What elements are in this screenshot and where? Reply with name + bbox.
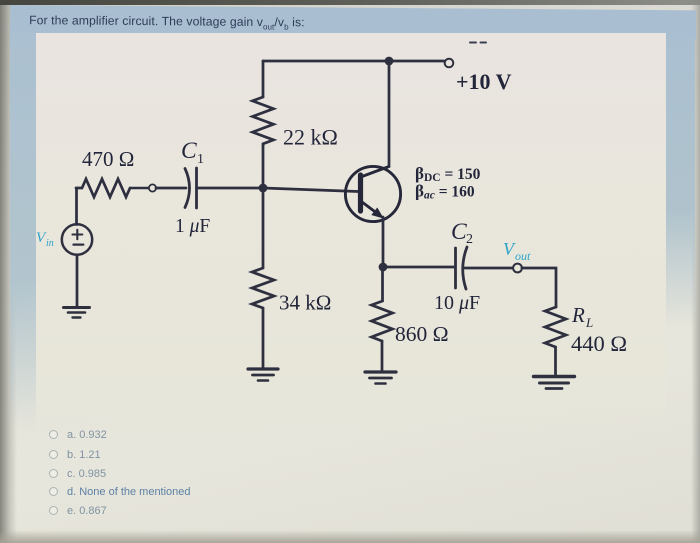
label 22 kΩ [283, 125, 338, 150]
label 440 Ω [571, 331, 627, 356]
svg-text:C: C [451, 219, 467, 245]
ground under RL [534, 377, 575, 389]
svg-text:L: L [585, 315, 593, 330]
ground under 860 [365, 372, 396, 384]
wire Vout to RL corner [522, 268, 556, 307]
wire input corner down [75, 188, 78, 225]
label 470 Ω [82, 147, 134, 171]
wire left column middle [262, 146, 265, 268]
label C1 [181, 138, 204, 167]
resistor 34 kΩ [252, 268, 274, 308]
label RL [571, 303, 593, 330]
option b [49, 449, 101, 461]
option e [49, 505, 107, 517]
transistor Q1 [345, 166, 400, 221]
option a [49, 429, 107, 441]
wire 860 to ground [381, 341, 384, 371]
cropped text dashes top right [470, 42, 486, 44]
wire collector vertical [388, 61, 391, 165]
label C2 [451, 219, 473, 247]
label 34 kΩ [279, 291, 331, 315]
wire base [263, 188, 358, 192]
terminal Vout [513, 264, 522, 273]
svg-text:2: 2 [466, 232, 473, 247]
wire source to ground [76, 255, 79, 307]
label +10 V [456, 69, 512, 94]
svg-text:34 kΩ: 34 kΩ [279, 291, 331, 315]
svg-text:860 Ω: 860 Ω [395, 322, 449, 346]
label Vin [36, 230, 54, 249]
wire 34k to ground [262, 308, 265, 367]
svg-text:1 μF: 1 μF [175, 216, 210, 237]
svg-text:βDC = 150: βDC = 150 [415, 164, 481, 184]
voltage source Vin [62, 224, 92, 254]
svg-text:R: R [571, 303, 585, 327]
node base junction [259, 184, 268, 193]
resistor 22 kΩ [253, 97, 274, 146]
wire top rail VCC [263, 60, 444, 63]
capacitor C1 [185, 168, 197, 208]
node collector-supply junction [385, 57, 394, 66]
svg-text:C: C [181, 138, 197, 164]
label 1 μF [175, 216, 210, 237]
resistor RL 440 Ω [545, 307, 566, 347]
svg-text:1: 1 [197, 152, 204, 167]
node input small terminal [130, 184, 156, 191]
labels βDC βac [415, 164, 481, 202]
label 860 Ω [395, 322, 449, 346]
option d [49, 486, 191, 498]
terminal +10 V [445, 59, 454, 68]
wire left column top [262, 61, 265, 97]
wire C1 to base node [197, 187, 264, 190]
wire terminal to C1 [156, 187, 186, 190]
ground under Vin [64, 308, 90, 318]
wire emitter node to C2 [383, 266, 455, 269]
svg-text:in: in [46, 238, 54, 249]
svg-text:out: out [515, 249, 531, 263]
svg-text:470 Ω: 470 Ω [82, 147, 134, 171]
svg-text:22 kΩ: 22 kΩ [283, 125, 338, 150]
svg-text:440 Ω: 440 Ω [571, 331, 627, 356]
svg-text:βac = 160: βac = 160 [415, 182, 475, 202]
option c [49, 468, 106, 480]
wire C2 to Vout [463, 267, 513, 270]
label 10 μF [434, 292, 480, 314]
label Vout [503, 239, 531, 263]
wire emitter vertical [382, 217, 385, 267]
capacitor C2 [456, 247, 468, 289]
resistor 470 Ω [76, 179, 130, 197]
ground under 34 kΩ [248, 369, 278, 381]
node emitter junction [379, 263, 388, 272]
resistor 860 Ω [372, 301, 393, 341]
svg-text:+10 V: +10 V [456, 69, 512, 94]
svg-text:10 μF: 10 μF [434, 292, 480, 314]
wire RL to ground [554, 347, 557, 375]
wire emitter node down to 860 [381, 267, 384, 301]
